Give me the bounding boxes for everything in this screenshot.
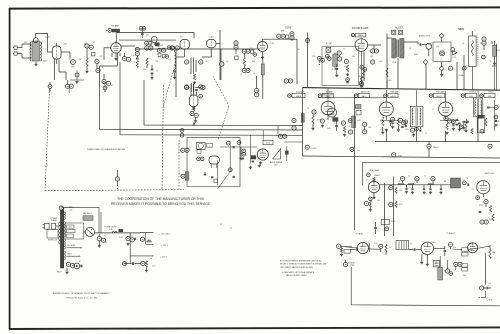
resistor R4 [85,58,88,73]
SOUND IF AMP label [352,27,369,30]
svg-text:.01: .01 [331,69,333,71]
hanging part 67 [103,82,107,93]
B+ line right [140,232,171,235]
osc tube V1 [48,40,62,64]
output transformer T5 [474,98,483,117]
cap C16 pair [234,40,238,54]
filter caps 87 88 [97,234,105,247]
caption tuner note [87,148,126,151]
line plug [43,224,59,230]
edge resistor hatched [301,114,304,123]
delay caps to ground [405,185,443,194]
svg-text:220: 220 [100,56,103,58]
junction 63 [350,147,360,152]
cooperation note [111,197,211,206]
parts left of box [317,56,324,65]
det tube dome [209,156,219,168]
svg-text:6W6: 6W6 [432,242,436,244]
resistor right [489,245,491,259]
plate feeds to bus [328,88,478,106]
feeds from buses [249,126,278,169]
wire osc section [176,49,211,97]
long bus wire y49 [135,48,260,50]
svg-text:① 6AU6: ① 6AU6 [355,233,363,236]
svg-text:5.5: 5.5 [343,49,345,51]
vert drop from B+ [129,233,131,264]
pot R15 [261,56,264,99]
pilot cluster [66,262,82,269]
svg-text:330: 330 [370,56,373,58]
vert out transformer T8 [438,260,443,280]
heater winding arrows [67,245,83,249]
grounds mid [420,255,429,266]
parts 58 59 [341,121,352,136]
svg-text:.1: .1 [377,230,378,232]
svg-text:COIL: COIL [398,156,402,158]
svg-text:RECEIVER MAKES IT POSSIBLE TO: RECEIVER MAKES IT POSSIBLE TO BRING YOU … [111,202,211,206]
svg-text:THE COOPERATION OF THE MANUFAC: THE COOPERATION OF THE MANUFACTURER OF T… [117,197,205,201]
triangle symbol [453,51,458,55]
svg-text:.01: .01 [409,48,411,50]
svg-text:125: 125 [380,129,383,131]
svg-text:40: 40 [230,228,232,230]
svg-text:TRANS: TRANS [50,219,57,222]
svg-text:60 ~: 60 ~ [70,209,73,211]
svg-text:V7: V7 [366,180,368,182]
5Z8 label [285,27,291,30]
svg-text:6AU6: 6AU6 [358,34,364,37]
sync label [355,233,363,236]
3rd audio label spacer [445,98,447,102]
parts 81 82 [454,262,468,271]
parts cluster 20-23 [157,48,168,58]
transformer T6 boxed [197,142,213,149]
svg-text:AL DET: AL DET [395,27,404,30]
left edge parts [135,47,139,67]
svg-text:47: 47 [79,261,81,263]
wire osc to mixer [61,52,70,60]
cap C8 pair [139,26,146,38]
fuse part 86 [59,206,73,210]
bus line y129 [100,88,303,130]
svg-text:FIELD: FIELD [433,147,439,149]
wire sound tube right [368,45,381,49]
power transformer core [60,210,63,268]
svg-text:B+: B+ [357,150,359,152]
wire y97 [318,97,385,99]
box to audio wire [284,141,303,143]
heater winding 2 [67,252,81,257]
svg-text:.001: .001 [160,45,163,47]
svg-text:40: 40 [105,242,107,244]
wire y40 [119,39,176,41]
tube V4 envelope [207,40,217,58]
svg-text:40: 40 [489,283,491,285]
svg-text:⑦ ⑧ 6BQ6: ⑦ ⑧ 6BQ6 [346,261,355,264]
wire det left [387,34,392,89]
svg-text:.05: .05 [133,62,135,64]
RF amp tube V2 [111,41,121,58]
RF AMP label [106,25,120,43]
wire bus y141 [375,141,500,143]
svg-text:12AU7: 12AU7 [374,174,381,177]
at rect label [83,213,92,215]
wire y39 segment [263,39,298,84]
svg-text:② 6K6GT: ② 6K6GT [446,232,455,235]
svg-text:A PERIODICALLY UPGRADED PHOTOF: A PERIODICALLY UPGRADED PHOTOFACT SCHEMA… [53,292,110,295]
discriminator transformer T3 [392,39,404,59]
sound IF tube V7 [355,39,368,56]
parts below tube V7 [346,65,367,83]
junction video peak [305,145,317,150]
svg-text:330: 330 [492,252,495,254]
svg-text:TO PIX: TO PIX [310,148,317,150]
tuner mesh extras [41,37,84,84]
svg-text:100: 100 [205,61,208,63]
audio box left wire [302,88,304,156]
vert out label [446,232,455,235]
in-box right edge parts [237,141,246,159]
resistor block right [355,105,361,115]
cap C3 pair [84,44,93,58]
dashed chassis outline horizontal [45,189,184,192]
5879 label [458,28,464,31]
peaking transformer block [451,178,469,188]
svg-text:+ 135 V (B+): + 135 V (B+) [159,233,171,235]
svg-text:500K: 500K [496,50,500,52]
wire bus y157 [303,156,500,158]
B boost label [479,291,493,301]
junction 70 [180,129,184,137]
volume control pot [469,31,478,90]
ground below C13 [150,77,153,80]
bus line y135 [120,62,303,135]
dashed vertical x162 [162,85,164,190]
svg-text:270: 270 [374,243,377,245]
parts 46 resistor [344,59,349,75]
svg-text:30: 30 [150,258,152,260]
svg-text:.05: .05 [471,189,473,191]
parts 79 80 [444,243,453,257]
junction 41 [306,39,310,43]
4.5MC trap label [326,43,333,45]
svg-text:3.3K: 3.3K [496,121,500,123]
vert output transformer T7 [396,241,409,250]
resistor R9 [146,58,148,68]
phase det caption [270,161,283,167]
parts 71 72 [181,148,189,152]
wire V4 to x220 [216,30,220,80]
svg-text:500: 500 [463,275,466,277]
bottom tube V17 [421,242,433,254]
vert osc label [484,173,495,175]
svg-text:6J6: 6J6 [64,44,67,46]
sound disc tube V11 [190,94,203,110]
enclosing bottom wire [351,267,500,306]
svg-text:5W: 5W [104,235,107,237]
parts 77 resistor [379,244,387,252]
wire T1 top to RF tube [36,34,48,41]
test point diamonds [423,33,455,71]
svg-text:300: 300 [24,42,27,44]
svg-text:8: 8 [487,107,488,109]
svg-text:1740: 1740 [109,229,113,231]
svg-text:270: 270 [168,59,171,61]
svg-text:25: 25 [432,109,434,111]
vertical x364 [359,52,364,86]
svg-text:5 Z-8: 5 Z-8 [285,27,291,30]
part 84 cap [480,286,492,290]
secondary coils [64,212,65,260]
vert osc tube V14 [477,181,490,197]
parts below V8 left [311,110,316,130]
svg-text:ANT: ANT [281,30,284,33]
svg-text:.003: .003 [489,219,492,221]
cap cluster x375 [374,222,377,234]
bus line y125 [144,80,303,126]
mixer tube V5 grids [185,58,203,75]
phase det tube V12 [257,149,268,164]
audio bus line [303,88,500,91]
wire phase to box [220,147,257,160]
parts below V10 [444,116,463,130]
cap 78 [409,248,419,251]
parts below T4 [410,128,415,136]
hanging cap 64 [48,82,52,92]
svg-text:.02: .02 [463,130,465,132]
svg-text:1740: 1740 [119,237,123,239]
svg-text:.02: .02 [348,126,350,128]
parts 16 17 [145,41,152,45]
svg-text:T7: T7 [410,244,412,246]
R cntrl label [386,68,392,82]
long vertical x307 [307,33,309,88]
svg-text:2.2M: 2.2M [270,43,274,45]
parts 43 44 [337,51,342,61]
svg-text:.005: .005 [405,129,408,131]
de-emphasis box [433,37,451,67]
parts 33 [251,50,257,56]
parts 76 resistor [364,201,372,211]
parts 26 27 [220,49,224,80]
sawtooth symbol [273,146,289,161]
svg-text:6W6: 6W6 [470,243,474,245]
below video tube [369,193,376,201]
antenna terminals [13,44,29,58]
audio tube V8 [321,101,336,120]
svg-text:+ 140 V: + 140 V [486,299,493,301]
parts below V9 [382,117,406,131]
long vertical x354 [353,95,355,230]
parts 74 75 [278,134,286,138]
AL DET label [395,27,404,30]
circled diamond [440,51,445,56]
in-box caps [204,160,218,185]
second B branch [140,233,168,248]
svg-text:RF AMP: RF AMP [112,25,120,28]
low line parts [123,262,141,266]
selenium hatched [83,216,93,221]
svg-text:L4: L4 [424,176,426,178]
junction and resistor V15 area [336,244,352,256]
far right vertical [492,41,497,91]
page border top [9,7,500,8]
mixer parts cluster [92,53,101,73]
caps C12 C13 [151,65,154,77]
svg-text:5879: 5879 [458,28,464,31]
delay line [380,184,451,185]
svg-text:6.3 V HTRS: 6.3 V HTRS [67,245,76,247]
output tube V10 [439,102,453,120]
svg-text:.005: .005 [379,61,382,63]
sound take parts [344,248,358,253]
tube label row [288,92,305,98]
mixer cathode resistor [193,74,196,84]
audio out label spacer [385,98,387,102]
svg-text:6AQ5: 6AQ5 [390,95,396,98]
hanging parts 65 66 [66,80,74,93]
svg-text:100: 100 [352,56,355,58]
svg-text:.05: .05 [253,73,255,75]
wires to IF strip [100,66,118,88]
IF band density pack 2 [440,120,468,135]
below vert osc tube [476,196,494,224]
parts on x393 [389,186,404,208]
B plus filter [95,212,140,233]
svg-text:470: 470 [250,48,253,50]
parts 34 35 [255,76,259,97]
power trans label [50,218,57,222]
svg-text:68: 68 [444,181,446,183]
wire mesh below osc [55,63,67,80]
b plus labels [346,261,355,264]
svg-text:★ SEE PARTS LIST FOR ALTERNATE: ★ SEE PARTS LIST FOR ALTERNATE [282,271,315,274]
parts below V8 [320,119,338,131]
svg-text:SOUND IF AMP: SOUND IF AMP [352,27,369,30]
bottom row connecting wires [346,246,490,270]
svg-text:47: 47 [111,85,113,87]
trap coil [333,52,338,70]
svg-text:270: 270 [394,123,397,125]
delay caps top [400,177,435,184]
ground below T1 [34,62,37,66]
junctions on bus 68 69 [292,118,296,130]
parts right 51 52 [482,37,486,50]
phase det label [263,140,273,144]
svg-text:6AU6: 6AU6 [296,95,302,98]
svg-text:L3: L3 [408,176,410,178]
bottom tube V16 [357,242,369,253]
page border left [9,8,11,329]
junctions on y141 [427,144,492,149]
page border bottom [9,327,500,329]
right vertical drop [485,256,487,285]
svg-text:4.5 MC: 4.5 MC [326,43,333,45]
svg-text:TUNER: TUNER [41,61,48,63]
115V label [69,207,74,211]
filter caps 87b 88b [126,233,136,242]
svg-text:INTERLOCK: INTERLOCK [48,239,58,241]
svg-text:L2: L2 [398,181,400,183]
parts below V11 [190,107,198,127]
wire V2 plate [104,46,135,66]
antenna coil T1 [28,38,41,61]
test point diamond [235,56,238,59]
IF band density pack 3 [415,115,498,131]
svg-text:40: 40 [131,236,133,238]
video tube V13 [368,178,379,193]
svg-text:©Howard W. Sams & Co., Inc. 95: ©Howard W. Sams & Co., Inc. 953 [66,296,98,299]
svg-text:.05: .05 [156,71,158,73]
pilot junction 85 [344,260,356,267]
right caps cluster [482,41,497,65]
vertical x393 [393,176,395,236]
svg-text:VERT OSC: VERT OSC [484,173,495,175]
quad coil hatched [181,172,189,180]
svg-text:.02: .02 [462,43,464,45]
interlock box [47,230,58,242]
tube V5 lower grids [185,84,203,96]
svg-text:AUDIO OUT: AUDIO OUT [419,34,431,37]
B135 branch [130,255,167,258]
converter tube V6 [258,42,268,59]
caps 89 90 ground [126,243,129,246]
primary coil [59,222,60,244]
svg-text:.05: .05 [489,61,491,63]
video box top [363,162,500,185]
small box 73 [197,150,204,161]
rect section box [65,223,83,239]
svg-text:+ 115 V: + 115 V [160,257,168,259]
sound section box [322,46,358,85]
parts 36 37 38 [277,32,294,40]
output tube V9 [379,102,393,120]
svg-text:100: 100 [146,35,149,37]
parts boxed 49 50 [392,30,403,34]
output transformer T4 [410,106,423,127]
boxed labels stack [67,225,76,238]
bottom tube V18 [468,243,478,253]
svg-text:.05: .05 [226,61,228,63]
caps and parts 45 [335,64,338,77]
parts 47 48 [371,49,379,64]
photofact footer [53,292,110,300]
verticals to buses [386,117,478,158]
svg-text:.05: .05 [93,42,95,44]
svg-text:OSC: OSC [71,66,76,68]
IF band density pack 1 [380,117,408,134]
parts 93 resistor [141,261,148,272]
svg-text:150: 150 [377,200,380,202]
audio coupling parts [404,42,432,56]
in-box right branch [218,141,235,189]
drops to audio bus [387,55,495,90]
sound IF boxed label [351,33,365,37]
bottom notes block [280,259,327,277]
video amp label [366,169,381,177]
svg-text:250: 250 [368,127,371,129]
boxes pair [462,248,468,256]
B+ top bus wire [117,33,195,39]
parts 18b [167,46,174,50]
parts 39 40 [284,79,292,83]
svg-text:VALUE OR APPLICABLE: VALUE OR APPLICABLE [286,274,308,277]
dashed chassis outline vertical [45,88,50,191]
trap boxed part [326,48,332,61]
ground below V2 [114,58,117,61]
svg-text:ONLY PARTS HAVING A SUM SHOWN.: ONLY PARTS HAVING A SUM SHOWN. [280,266,314,269]
svg-text:VOL: VOL [388,80,392,82]
